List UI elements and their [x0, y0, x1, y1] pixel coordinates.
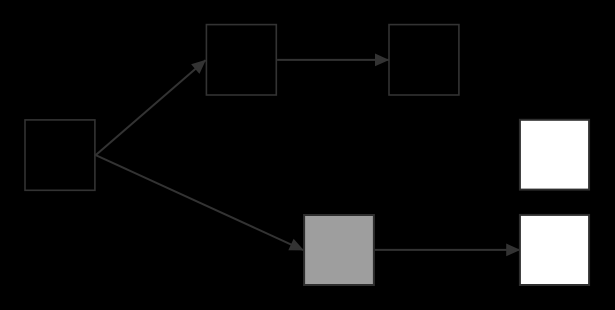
node E	[520, 120, 589, 190]
node B	[206, 25, 276, 95]
wire B to C	[277, 55, 389, 65]
node D	[304, 215, 374, 285]
wire A to B	[96, 58, 208, 155]
wire A to D	[96, 155, 304, 254]
wire D to F	[375, 245, 520, 255]
node C	[389, 25, 459, 95]
node A	[25, 120, 95, 190]
node F	[520, 215, 589, 285]
